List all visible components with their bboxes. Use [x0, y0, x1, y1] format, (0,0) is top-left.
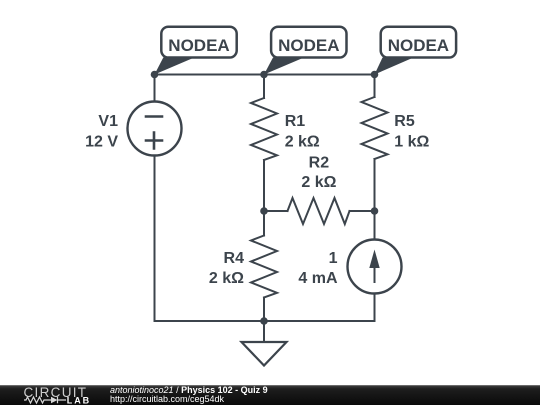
- svg-text:R4: R4: [224, 250, 245, 267]
- ground triangle: [242, 342, 287, 366]
- callout NODEA 2 box: [271, 27, 346, 58]
- wire between R5 and node: [374, 159, 376, 211]
- ground stub: [263, 321, 265, 342]
- svg-text:2 kΩ: 2 kΩ: [209, 270, 244, 287]
- callout NODEA 2 tail: [264, 58, 304, 75]
- footer bar: [0, 385, 540, 405]
- callout NODEA 1 tail: [155, 58, 195, 75]
- current source I1 circle: [348, 240, 402, 294]
- svg-text:R2: R2: [309, 154, 330, 171]
- node dot A2: [260, 71, 268, 79]
- wire below R4: [263, 298, 265, 322]
- wire stub above R4: [263, 211, 265, 236]
- wire bottom horizontal: [155, 320, 375, 322]
- callout NODEA 3 box: [381, 27, 456, 58]
- svg-text:NODEA: NODEA: [168, 36, 229, 55]
- wire between R1 and node: [263, 160, 265, 211]
- svg-text:2 kΩ: 2 kΩ: [285, 133, 320, 150]
- node dot R2-R5-I1 junction: [371, 207, 379, 215]
- wire below current source: [374, 294, 376, 322]
- resistor R4: [251, 236, 277, 298]
- callout NODEA 1 box: [161, 27, 236, 58]
- svg-text:12 V: 12 V: [85, 133, 118, 150]
- current source arrowhead: [369, 250, 379, 269]
- svg-text:2 kΩ: 2 kΩ: [301, 174, 336, 191]
- V1 minus sign: [146, 115, 162, 118]
- wire middle stub above R1: [263, 75, 265, 99]
- wire right stub above R5: [374, 75, 376, 98]
- voltage source V1 circle: [128, 102, 182, 156]
- node dot R1-R2-R4 junction: [260, 207, 268, 215]
- wire R2 left lead: [264, 210, 288, 212]
- svg-text:1 kΩ: 1 kΩ: [394, 133, 429, 150]
- wire stub above current source: [374, 211, 376, 240]
- circuitlab logo: [0, 385, 100, 405]
- current source arrow shaft: [374, 256, 376, 282]
- svg-text:LAB: LAB: [67, 395, 91, 405]
- wire R2 right lead: [350, 210, 375, 212]
- resistor R5: [362, 97, 388, 159]
- callout NODEA 3 tail: [375, 58, 414, 75]
- svg-text:4 mA: 4 mA: [298, 270, 338, 287]
- svg-text:R1: R1: [285, 113, 306, 130]
- wire left vertical top: [154, 75, 156, 102]
- footer line 1: [110, 386, 268, 395]
- node dot A1: [151, 71, 159, 79]
- node dot ground junction: [260, 317, 268, 325]
- svg-text:1: 1: [329, 250, 338, 267]
- svg-text:NODEA: NODEA: [278, 36, 339, 55]
- footer line 2: [110, 395, 224, 404]
- V1 plus sign: [146, 133, 162, 149]
- resistor R1: [251, 98, 277, 160]
- svg-text:R5: R5: [394, 113, 415, 130]
- svg-text:NODEA: NODEA: [388, 36, 449, 55]
- wire top horizontal: [155, 74, 375, 76]
- resistor R2: [288, 198, 350, 224]
- svg-text:V1: V1: [98, 113, 118, 130]
- wire left vertical bottom: [154, 156, 156, 322]
- node dot A3: [371, 71, 379, 79]
